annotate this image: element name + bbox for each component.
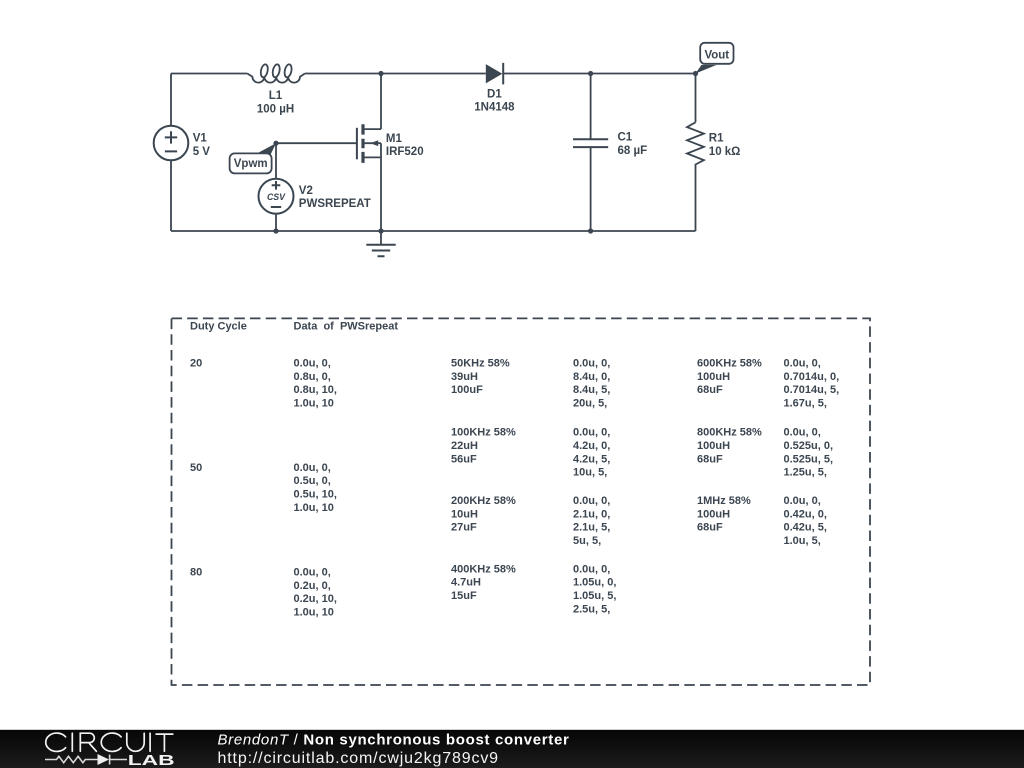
svg-text:68uF: 68uF [697, 384, 723, 396]
svg-text:0.7014u, 5,: 0.7014u, 5, [784, 384, 840, 396]
svg-text:68uF: 68uF [697, 522, 723, 534]
svg-text:V1: V1 [193, 133, 208, 145]
svg-text:0.2u, 0,: 0.2u, 0, [294, 580, 331, 592]
svg-text:http://circuitlab.com/cwju2kg7: http://circuitlab.com/cwju2kg789cv9 [218, 750, 499, 767]
svg-text:5u, 5,: 5u, 5, [573, 535, 601, 547]
svg-text:0.7014u, 0,: 0.7014u, 0, [784, 371, 840, 383]
svg-text:1N4148: 1N4148 [474, 101, 515, 113]
svg-text:68uF: 68uF [697, 453, 723, 465]
svg-text:0.8u, 0,: 0.8u, 0, [294, 371, 331, 383]
svg-text:1.05u, 5,: 1.05u, 5, [573, 590, 616, 602]
svg-text:1.0u, 10: 1.0u, 10 [294, 607, 334, 619]
svg-text:0.0u, 0,: 0.0u, 0, [784, 358, 821, 370]
svg-text:0.525u, 5,: 0.525u, 5, [784, 453, 834, 465]
svg-text:L1: L1 [269, 90, 283, 102]
svg-text:R1: R1 [709, 133, 724, 145]
svg-text:15uF: 15uF [451, 590, 477, 602]
svg-text:1.25u, 5,: 1.25u, 5, [784, 467, 827, 479]
svg-text:400KHz 58%: 400KHz 58% [451, 563, 516, 575]
svg-text:0.5u, 10,: 0.5u, 10, [294, 489, 337, 501]
svg-text:1MHz 58%: 1MHz 58% [697, 495, 751, 507]
svg-text:1.0u, 5,: 1.0u, 5, [784, 535, 821, 547]
svg-text:10u, 5,: 10u, 5, [573, 467, 607, 479]
svg-text:2.5u, 5,: 2.5u, 5, [573, 603, 610, 615]
svg-text:10 kΩ: 10 kΩ [709, 146, 741, 158]
svg-text:0.0u, 0,: 0.0u, 0, [294, 462, 331, 474]
svg-text:0.0u, 0,: 0.0u, 0, [573, 495, 610, 507]
svg-text:Data of PWSrepeat: Data of PWSrepeat [294, 321, 399, 333]
svg-text:0.0u, 0,: 0.0u, 0, [573, 427, 610, 439]
svg-text:M1: M1 [386, 133, 403, 145]
svg-text:10uH: 10uH [451, 508, 478, 520]
svg-text:0.2u, 10,: 0.2u, 10, [294, 593, 337, 605]
svg-text:100uH: 100uH [697, 508, 730, 520]
svg-text:100uF: 100uF [451, 384, 483, 396]
svg-text:4.2u, 5,: 4.2u, 5, [573, 453, 610, 465]
svg-text:20: 20 [190, 358, 202, 370]
svg-text:80: 80 [190, 567, 202, 579]
svg-text:BrendonT / Non synchronous boo: BrendonT / Non synchronous boost convert… [218, 731, 570, 748]
svg-text:22uH: 22uH [451, 440, 478, 452]
svg-text:0.42u, 0,: 0.42u, 0, [784, 508, 827, 520]
svg-text:1.0u, 10: 1.0u, 10 [294, 398, 334, 410]
svg-text:2.1u, 0,: 2.1u, 0, [573, 508, 610, 520]
svg-text:600KHz 58%: 600KHz 58% [697, 358, 762, 370]
svg-text:5 V: 5 V [193, 146, 211, 158]
svg-text:0.0u, 0,: 0.0u, 0, [784, 427, 821, 439]
svg-text:0.42u, 5,: 0.42u, 5, [784, 522, 827, 534]
svg-text:800KHz 58%: 800KHz 58% [697, 427, 762, 439]
svg-text:1.05u, 0,: 1.05u, 0, [573, 577, 616, 589]
svg-text:0.8u, 10,: 0.8u, 10, [294, 384, 337, 396]
svg-text:0.0u, 0,: 0.0u, 0, [294, 358, 331, 370]
svg-text:100KHz 58%: 100KHz 58% [451, 427, 516, 439]
svg-text:68 µF: 68 µF [618, 145, 648, 157]
svg-text:0.0u, 0,: 0.0u, 0, [573, 358, 610, 370]
svg-text:CSV: CSV [267, 192, 286, 202]
svg-text:50KHz 58%: 50KHz 58% [451, 358, 510, 370]
svg-text:0.0u, 0,: 0.0u, 0, [784, 495, 821, 507]
svg-text:1.67u, 5,: 1.67u, 5, [784, 398, 827, 410]
svg-text:100uH: 100uH [697, 440, 730, 452]
svg-text:100uH: 100uH [697, 371, 730, 383]
svg-text:4.7uH: 4.7uH [451, 577, 481, 589]
svg-text:0.525u, 0,: 0.525u, 0, [784, 440, 834, 452]
svg-text:39uH: 39uH [451, 371, 478, 383]
svg-text:27uF: 27uF [451, 522, 477, 534]
svg-text:IRF520: IRF520 [386, 146, 424, 158]
svg-text:D1: D1 [487, 88, 502, 100]
svg-text:C1: C1 [618, 132, 633, 144]
svg-text:50: 50 [190, 462, 202, 474]
svg-text:2.1u, 5,: 2.1u, 5, [573, 522, 610, 534]
svg-text:56uF: 56uF [451, 453, 477, 465]
svg-text:4.2u, 0,: 4.2u, 0, [573, 440, 610, 452]
svg-text:20u, 5,: 20u, 5, [573, 398, 607, 410]
svg-text:1.0u, 10: 1.0u, 10 [294, 502, 334, 514]
svg-text:8.4u, 0,: 8.4u, 0, [573, 371, 610, 383]
svg-text:0.0u, 0,: 0.0u, 0, [573, 563, 610, 575]
svg-text:Vout: Vout [704, 49, 729, 61]
svg-text:8.4u, 5,: 8.4u, 5, [573, 384, 610, 396]
svg-text:V2: V2 [299, 185, 313, 197]
svg-text:200KHz 58%: 200KHz 58% [451, 495, 516, 507]
svg-text:0.5u, 0,: 0.5u, 0, [294, 475, 331, 487]
svg-text:Duty Cycle: Duty Cycle [190, 321, 247, 333]
svg-text:LAB: LAB [128, 753, 175, 768]
svg-text:PWSREPEAT: PWSREPEAT [299, 198, 371, 210]
svg-text:100 µH: 100 µH [257, 103, 294, 115]
svg-text:0.0u, 0,: 0.0u, 0, [294, 567, 331, 579]
svg-text:Vpwm: Vpwm [234, 158, 268, 170]
